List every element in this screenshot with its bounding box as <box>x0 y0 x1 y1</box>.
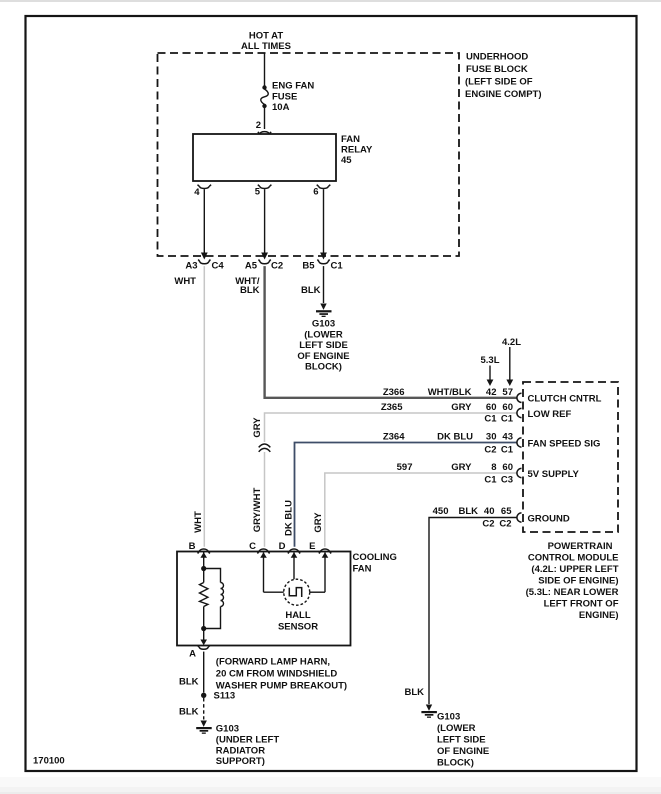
svg-text:BLK: BLK <box>404 687 424 698</box>
svg-text:ENGINE): ENGINE) <box>579 610 619 621</box>
svg-text:LEFT SIDE: LEFT SIDE <box>437 735 486 746</box>
svg-text:GRY: GRY <box>451 402 472 413</box>
svg-text:60: 60 <box>486 402 497 413</box>
svg-text:57: 57 <box>502 387 513 398</box>
svg-text:BLK: BLK <box>240 285 260 296</box>
svg-text:G103: G103 <box>312 319 335 330</box>
svg-text:GRY: GRY <box>451 462 472 473</box>
svg-text:CONTROL MODULE: CONTROL MODULE <box>528 553 619 564</box>
svg-text:GROUND: GROUND <box>528 514 570 525</box>
svg-text:(5.3L: NEAR LOWER: (5.3L: NEAR LOWER <box>526 587 619 598</box>
svg-text:5.3L: 5.3L <box>480 355 499 366</box>
svg-text:WHT/BLK: WHT/BLK <box>428 387 472 398</box>
svg-text:43: 43 <box>502 432 513 443</box>
svg-text:BLK: BLK <box>458 506 478 517</box>
svg-text:E: E <box>309 541 315 552</box>
svg-text:A: A <box>189 649 196 660</box>
svg-text:C2: C2 <box>271 261 283 272</box>
svg-text:(LOWER: (LOWER <box>437 723 476 734</box>
svg-text:20 CM FROM WINDSHIELD: 20 CM FROM WINDSHIELD <box>216 669 338 680</box>
svg-text:45: 45 <box>341 155 352 166</box>
svg-text:A5: A5 <box>245 261 258 272</box>
svg-text:WHT: WHT <box>174 276 196 287</box>
svg-text:RELAY: RELAY <box>341 145 373 156</box>
svg-text:10A: 10A <box>272 102 290 113</box>
svg-text:5V SUPPLY: 5V SUPPLY <box>528 469 580 480</box>
svg-text:FAN: FAN <box>353 564 372 575</box>
svg-text:ALL TIMES: ALL TIMES <box>241 41 291 52</box>
svg-text:CLUTCH CNTRL: CLUTCH CNTRL <box>528 394 602 405</box>
svg-text:C4: C4 <box>212 261 225 272</box>
svg-text:Z365: Z365 <box>381 402 403 413</box>
svg-text:OF ENGINE: OF ENGINE <box>437 746 489 757</box>
svg-text:GRY: GRY <box>313 512 324 533</box>
svg-text:C2: C2 <box>484 445 496 456</box>
svg-text:S113: S113 <box>214 691 236 702</box>
svg-text:A3: A3 <box>185 261 197 272</box>
svg-text:LEFT FRONT OF: LEFT FRONT OF <box>544 599 619 610</box>
svg-text:LOW REF: LOW REF <box>528 409 572 420</box>
svg-text:UNDERHOOD: UNDERHOOD <box>466 52 528 63</box>
svg-text:170100: 170100 <box>33 756 65 767</box>
svg-text:GRY/WHT: GRY/WHT <box>252 488 263 533</box>
svg-text:4.2L: 4.2L <box>502 337 521 348</box>
svg-text:60: 60 <box>502 402 513 413</box>
svg-text:(LEFT SIDE OF: (LEFT SIDE OF <box>465 77 533 88</box>
svg-text:5: 5 <box>255 187 261 198</box>
svg-text:POWERTRAIN: POWERTRAIN <box>548 541 613 552</box>
svg-text:597: 597 <box>397 462 413 473</box>
svg-text:(FORWARD LAMP HARN,: (FORWARD LAMP HARN, <box>216 657 330 668</box>
svg-text:4: 4 <box>194 187 200 198</box>
svg-text:ENGINE COMPT): ENGINE COMPT) <box>465 89 542 100</box>
svg-text:WHT: WHT <box>193 511 204 533</box>
svg-text:C1: C1 <box>484 475 497 486</box>
svg-text:BLOCK): BLOCK) <box>437 758 474 769</box>
svg-text:C1: C1 <box>501 414 514 425</box>
svg-text:C1: C1 <box>331 261 344 272</box>
svg-text:(UNDER LEFT: (UNDER LEFT <box>216 735 280 746</box>
svg-text:FAN: FAN <box>341 134 360 145</box>
svg-text:30: 30 <box>486 432 497 443</box>
svg-text:B5: B5 <box>302 261 315 272</box>
svg-text:42: 42 <box>486 387 497 398</box>
svg-text:40: 40 <box>484 506 495 517</box>
svg-text:C: C <box>249 541 256 552</box>
svg-text:HALL: HALL <box>285 610 311 621</box>
svg-text:(4.2L: UPPER LEFT: (4.2L: UPPER LEFT <box>531 564 618 575</box>
svg-text:LEFT SIDE: LEFT SIDE <box>299 340 348 351</box>
svg-text:Z366: Z366 <box>383 387 405 398</box>
svg-text:SUPPORT): SUPPORT) <box>216 756 265 767</box>
svg-text:ENG FAN: ENG FAN <box>272 81 314 92</box>
svg-text:BLOCK): BLOCK) <box>305 362 342 373</box>
svg-text:HOT AT: HOT AT <box>249 31 283 42</box>
svg-text:BLK: BLK <box>301 285 321 296</box>
svg-text:WASHER PUMP BREAKOUT): WASHER PUMP BREAKOUT) <box>216 680 347 691</box>
svg-text:B: B <box>189 541 196 552</box>
svg-text:DK BLU: DK BLU <box>284 500 295 536</box>
svg-text:G103: G103 <box>216 724 239 735</box>
svg-text:C3: C3 <box>501 475 513 486</box>
svg-text:8: 8 <box>491 462 496 473</box>
svg-text:60: 60 <box>502 462 513 473</box>
svg-text:SIDE OF ENGINE): SIDE OF ENGINE) <box>538 576 618 587</box>
svg-text:SENSOR: SENSOR <box>278 622 318 633</box>
svg-text:G103: G103 <box>437 712 460 723</box>
svg-text:C1: C1 <box>484 414 497 425</box>
svg-text:BLK: BLK <box>179 707 199 718</box>
svg-text:2: 2 <box>256 120 261 131</box>
svg-text:COOLING: COOLING <box>353 552 397 563</box>
svg-text:D: D <box>279 541 286 552</box>
svg-text:DK BLU: DK BLU <box>437 432 473 443</box>
svg-text:(LOWER: (LOWER <box>304 329 343 340</box>
svg-text:450: 450 <box>433 506 449 517</box>
svg-text:C2: C2 <box>499 519 511 530</box>
svg-text:BLK: BLK <box>179 677 199 688</box>
svg-text:FUSE: FUSE <box>272 92 297 103</box>
svg-text:FAN SPEED SIG: FAN SPEED SIG <box>528 439 601 450</box>
svg-text:Z364: Z364 <box>383 432 405 443</box>
svg-text:OF ENGINE: OF ENGINE <box>297 351 349 362</box>
svg-text:C1: C1 <box>501 445 514 456</box>
svg-text:FUSE BLOCK: FUSE BLOCK <box>466 64 528 75</box>
svg-text:C2: C2 <box>482 519 494 530</box>
svg-text:GRY: GRY <box>252 417 263 438</box>
svg-text:RADIATOR: RADIATOR <box>216 746 265 757</box>
svg-text:65: 65 <box>501 506 512 517</box>
svg-text:6: 6 <box>313 187 318 198</box>
